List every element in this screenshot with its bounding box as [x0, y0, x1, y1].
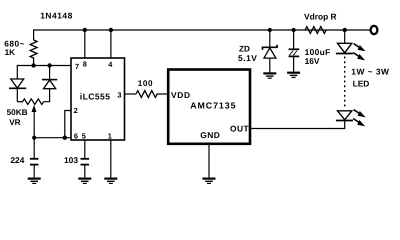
- svg-text:3: 3: [117, 90, 121, 99]
- resistor R1 680~1K: [30, 40, 37, 66]
- svg-text:50KB: 50KB: [7, 108, 28, 117]
- ground pin1: [104, 179, 117, 184]
- resistor R2 100: [136, 91, 167, 98]
- svg-text:6: 6: [74, 131, 78, 140]
- svg-text:100: 100: [138, 79, 153, 88]
- ground C1: [28, 179, 41, 184]
- wire pin3: [125, 93, 137, 95]
- potentiometer VR 50KB: [17, 99, 43, 138]
- node junction pin2: [63, 136, 67, 140]
- svg-text:GND: GND: [200, 130, 220, 140]
- svg-text:1W ~ 3W: 1W ~ 3W: [351, 66, 389, 76]
- svg-text:iLC555: iLC555: [80, 91, 111, 101]
- wire pin2: [65, 111, 71, 138]
- svg-text:5.1V: 5.1V: [238, 53, 257, 63]
- IC U1 iLC555 box: [71, 58, 125, 140]
- wire OUT net: [251, 120, 344, 128]
- svg-text:16V: 16V: [305, 56, 320, 66]
- wire pin8: [84, 30, 86, 58]
- LED D4 arrows: [353, 110, 365, 127]
- IC U2 AMC7135 box: [168, 70, 250, 144]
- svg-text:8: 8: [83, 59, 87, 68]
- svg-text:OUT: OUT: [230, 124, 249, 134]
- wire pin7 rail: [17, 66, 71, 80]
- resistor R3 Vdrop R: [305, 27, 326, 34]
- node junction pin8 rail: [83, 28, 87, 32]
- svg-text:103: 103: [64, 155, 78, 165]
- LED D4: [336, 111, 353, 121]
- svg-text:VDD: VDD: [171, 90, 191, 100]
- wire top rail: [34, 30, 371, 40]
- svg-text:1K: 1K: [5, 48, 16, 57]
- node junction C3 rail: [292, 28, 296, 32]
- node junction D2 top: [47, 63, 51, 67]
- svg-text:AMC7135: AMC7135: [190, 101, 236, 111]
- svg-text:5: 5: [82, 131, 86, 140]
- LED D3 arrows: [353, 44, 365, 61]
- diode D1 1N4148 (down): [9, 79, 26, 102]
- capacitor C3 100uF 16V: [289, 30, 300, 72]
- svg-text:2: 2: [74, 106, 78, 115]
- wire pin5: [84, 140, 86, 159]
- ground U2: [203, 179, 216, 184]
- node junction LED1 rail: [343, 28, 347, 32]
- zener ZD 5.1V: [263, 30, 278, 72]
- capacitor C2 103: [81, 159, 90, 178]
- svg-text:Vdrop R: Vdrop R: [304, 11, 337, 21]
- diode D2 1N4148 (up): [42, 66, 57, 102]
- node junction pin4 rail: [109, 28, 113, 32]
- capacitor C1 224: [30, 138, 39, 178]
- node junction ZD rail: [268, 28, 272, 32]
- wire pin4: [110, 30, 112, 58]
- LED D3: [336, 30, 353, 54]
- svg-text:VR: VR: [9, 118, 20, 127]
- svg-text:224: 224: [10, 155, 24, 165]
- svg-text:1: 1: [108, 131, 112, 140]
- svg-text:LED: LED: [353, 78, 370, 88]
- ground C3: [287, 73, 300, 78]
- wire U2 gnd: [208, 145, 210, 178]
- svg-text:7: 7: [75, 62, 79, 71]
- ground ZD: [263, 73, 276, 78]
- wire dotted LED string: [344, 57, 346, 109]
- node junction wiper: [32, 136, 36, 140]
- svg-text:1N4148: 1N4148: [40, 10, 73, 20]
- wire pin1: [110, 140, 112, 177]
- wire pin6 net: [34, 137, 71, 139]
- ground C2: [78, 179, 91, 184]
- node junction R1 bottom: [31, 63, 35, 67]
- svg-text:680~: 680~: [4, 38, 25, 48]
- terminal V+: [371, 26, 378, 34]
